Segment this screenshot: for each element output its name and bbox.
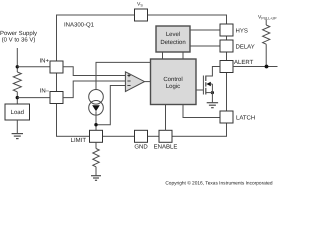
transistor Q1 drain wire to ALERT xyxy=(206,67,220,77)
op-amp comparator xyxy=(125,72,144,92)
svg-text:Power Supply: Power Supply xyxy=(0,30,37,37)
wire rail between shunt and load xyxy=(16,92,18,104)
pin IN+ xyxy=(50,61,63,73)
wire IN+ to comparator xyxy=(63,67,125,76)
wire resistor to ground xyxy=(95,167,97,176)
wire IN+ from rail xyxy=(17,66,50,68)
svg-text:IN+: IN+ xyxy=(39,58,49,65)
svg-text:IN–: IN– xyxy=(40,88,50,95)
wire vpullup to resistor xyxy=(265,20,267,26)
block Control Logic xyxy=(151,59,197,105)
transistor Q1 body arrow xyxy=(206,82,211,86)
pin LATCH xyxy=(220,111,233,123)
load box xyxy=(5,104,30,120)
pin ALERT xyxy=(220,61,233,73)
wire level detection to control logic (left) xyxy=(162,52,164,59)
ground (transistor source) xyxy=(207,103,218,108)
svg-text:INA300-Q1: INA300-Q1 xyxy=(64,22,95,29)
pin LIMIT xyxy=(90,130,103,142)
wire LIMIT sense to comparator xyxy=(96,86,125,125)
svg-text:DELAY: DELAY xyxy=(236,44,255,51)
svg-text:ENABLE: ENABLE xyxy=(154,144,178,151)
svg-text:(0 V to 36 V): (0 V to 36 V) xyxy=(2,37,36,44)
svg-text:Detection: Detection xyxy=(160,39,185,46)
wire level detection to HYS xyxy=(190,29,220,31)
node LIMIT junction xyxy=(94,123,97,126)
transistor Q1 gate bar xyxy=(202,76,204,95)
svg-text:VPULL-UP: VPULL-UP xyxy=(258,14,277,20)
resistor Rshunt xyxy=(13,72,21,92)
pin DELAY xyxy=(220,40,233,52)
transistor Q1 source wire xyxy=(206,92,213,94)
svg-text:HYS: HYS xyxy=(236,28,248,35)
resistor R_LIMIT xyxy=(93,149,99,167)
transistor Q1 gate wire xyxy=(196,89,203,91)
wire enable to control logic xyxy=(165,105,167,131)
pin ENABLE xyxy=(159,130,172,142)
node supply/IN+ junction xyxy=(16,65,19,68)
svg-text:ALERT: ALERT xyxy=(234,59,254,66)
ground (limit resistor) xyxy=(91,176,101,181)
wire control logic to latch xyxy=(183,105,220,118)
node body/source junction xyxy=(211,91,214,94)
wire load to ground xyxy=(16,120,18,133)
wire pullup resistor to alert line xyxy=(265,44,267,66)
svg-text:LIMIT: LIMIT xyxy=(71,137,87,144)
svg-text:Logic: Logic xyxy=(166,83,180,90)
wire current source top to control logic xyxy=(96,62,151,89)
svg-text:Copyright © 2016, Texas Instru: Copyright © 2016, Texas Instruments Inco… xyxy=(165,181,273,187)
svg-text:LATCH: LATCH xyxy=(236,115,255,122)
svg-text:VS: VS xyxy=(137,2,143,8)
ground (left) xyxy=(12,134,23,139)
IC boundary box INA300-Q1 xyxy=(57,15,227,136)
wire level detection to DELAY xyxy=(190,45,220,47)
current source I_limit xyxy=(89,90,104,105)
pin HYS xyxy=(220,24,233,36)
wire current source bottom to limit node xyxy=(95,111,97,130)
wire IN- from rail xyxy=(17,97,50,99)
node alert/pullup junction xyxy=(265,65,269,69)
pin VS xyxy=(135,9,148,21)
wire level detection to control logic (right) xyxy=(182,52,184,59)
wire comparator output to control logic xyxy=(145,81,151,83)
pin GND xyxy=(135,130,148,142)
svg-text:Load: Load xyxy=(11,109,24,116)
transistor Q1 channel segments xyxy=(205,76,207,95)
svg-text:Level: Level xyxy=(166,31,180,38)
block Level Detection xyxy=(156,26,190,52)
wire IN- to comparator xyxy=(63,81,125,98)
wire ALERT output xyxy=(233,66,278,68)
node rail/IN- junction xyxy=(16,96,19,99)
wire limit box to resistor xyxy=(95,142,97,148)
svg-text:GND: GND xyxy=(134,144,148,151)
wire supply rail top xyxy=(16,48,18,72)
resistor R_pullup xyxy=(263,25,270,44)
pin IN- xyxy=(50,92,63,104)
svg-text:Control: Control xyxy=(163,76,182,83)
